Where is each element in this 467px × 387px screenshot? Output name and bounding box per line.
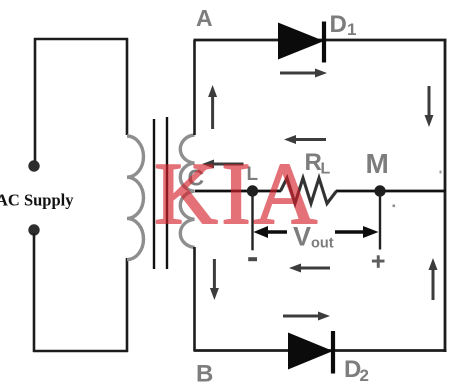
- svg-text:A: A: [196, 5, 213, 31]
- svg-text:2: 2: [360, 366, 369, 385]
- label minus polarity: [248, 257, 257, 261]
- diode D2: [288, 331, 333, 374]
- arrow current leftward above RL: [284, 135, 326, 144]
- svg-text:L: L: [321, 161, 331, 178]
- arrow current up (right rail bottom): [429, 258, 438, 300]
- svg-text:AC Supply: AC Supply: [0, 191, 74, 210]
- wire right rail: [444, 39, 447, 352]
- wire secondary bottom lead: [193, 247, 196, 351]
- inductor T1 primary winding: [127, 136, 144, 260]
- wire bottom rail: [194, 349, 447, 352]
- node AC top terminal dot: [28, 160, 39, 171]
- arrow Vout dimension right: [335, 226, 379, 238]
- arrow current below D1 (rightward): [280, 69, 327, 78]
- wire AC loop left vertical lower (from bottom terminal): [33, 233, 36, 352]
- wire AC loop bottom horizontal: [33, 350, 128, 353]
- wire primary bottom lead: [126, 258, 129, 352]
- node AC bottom terminal dot: [28, 224, 39, 235]
- arrow current down (secondary bottom branch): [210, 259, 219, 300]
- svg-text:KIA: KIA: [154, 146, 317, 243]
- resistor RL zigzag: [281, 178, 337, 204]
- wire resistor to right rail: [336, 190, 446, 193]
- svg-text:1: 1: [347, 20, 356, 39]
- diode D1: [278, 22, 324, 63]
- inductor T1 secondary winding: [180, 135, 194, 247]
- arrow current up (secondary top branch): [208, 85, 217, 129]
- svg-text:M: M: [366, 148, 389, 179]
- wire Vout right tick below M: [379, 193, 381, 250]
- wire AC loop left vertical upper (to top terminal): [34, 38, 37, 163]
- label plus polarity: [372, 255, 385, 267]
- speck near node M: [393, 205, 396, 208]
- svg-text:D: D: [330, 11, 347, 38]
- wire Vout left tick below L: [251, 193, 253, 250]
- wire AC loop top horizontal: [34, 38, 128, 41]
- arrow current leftward near C: [202, 160, 244, 169]
- speck near right rail: [440, 171, 442, 174]
- arrow current above D2 (rightward): [283, 312, 330, 321]
- transformer core bar right: [166, 117, 168, 269]
- transformer core bar left: [153, 119, 155, 269]
- wire secondary top lead: [193, 40, 196, 135]
- arrow Vout dimension left: [254, 226, 288, 238]
- arrow current leftward below Vout: [289, 264, 330, 273]
- wire primary top lead: [126, 38, 129, 135]
- watermark KIA: [154, 146, 317, 243]
- arrow current down (right rail top): [425, 86, 434, 127]
- wire center tap to load rail: [195, 190, 281, 193]
- node L junction dot: [247, 185, 258, 196]
- wire top rail: [194, 39, 447, 42]
- svg-text:B: B: [196, 361, 213, 387]
- node M junction dot: [374, 185, 385, 196]
